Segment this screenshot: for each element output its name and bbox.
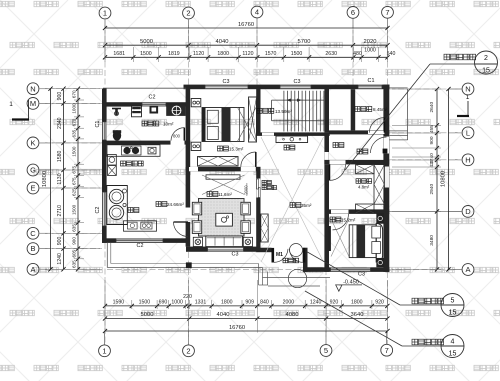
svg-text:2000: 2000 bbox=[243, 185, 248, 195]
svg-text:C3: C3 bbox=[232, 252, 239, 258]
svg-text:1000: 1000 bbox=[171, 299, 183, 305]
svg-text:6: 6 bbox=[351, 8, 355, 17]
svg-text:1580: 1580 bbox=[57, 151, 63, 163]
svg-text:1500: 1500 bbox=[140, 51, 152, 57]
svg-text:1681: 1681 bbox=[113, 51, 125, 57]
svg-text:1500: 1500 bbox=[72, 146, 77, 157]
svg-text:5000: 5000 bbox=[140, 39, 153, 45]
svg-text:675: 675 bbox=[72, 166, 77, 174]
svg-text:2: 2 bbox=[186, 9, 190, 18]
svg-text:8.45m²: 8.45m² bbox=[373, 107, 388, 112]
svg-text:1000: 1000 bbox=[364, 48, 376, 54]
svg-text:670: 670 bbox=[72, 118, 77, 126]
svg-text:220: 220 bbox=[183, 294, 192, 300]
modern stove counter bbox=[107, 145, 160, 157]
windows bbox=[205, 85, 248, 89]
porch column bbox=[186, 262, 192, 268]
elevation -0.450 bbox=[336, 285, 342, 291]
svg-text:900: 900 bbox=[72, 237, 77, 245]
svg-text:K: K bbox=[30, 139, 35, 148]
svg-text:C2: C2 bbox=[95, 207, 101, 214]
svg-text:1800: 1800 bbox=[217, 51, 229, 57]
right dimension lines bbox=[448, 89, 450, 270]
svg-text:24.66m²: 24.66m² bbox=[167, 202, 184, 207]
svg-text:C2: C2 bbox=[149, 95, 156, 101]
svg-text:2: 2 bbox=[484, 55, 488, 62]
svg-text:15.2m²: 15.2m² bbox=[341, 218, 356, 223]
svg-text:909: 909 bbox=[245, 299, 254, 305]
svg-text:635: 635 bbox=[72, 129, 77, 137]
svg-text:1590: 1590 bbox=[113, 299, 125, 305]
entry steps bbox=[263, 277, 331, 279]
svg-text:C2: C2 bbox=[137, 243, 144, 249]
sliding glass door bbox=[257, 179, 259, 189]
svg-text:670: 670 bbox=[72, 90, 77, 98]
svg-text:2340: 2340 bbox=[57, 117, 63, 129]
svg-text:15: 15 bbox=[482, 68, 490, 75]
svg-text:800: 800 bbox=[173, 134, 181, 139]
svg-text:16760: 16760 bbox=[238, 22, 254, 28]
svg-text:900: 900 bbox=[57, 92, 63, 101]
svg-text:C3: C3 bbox=[223, 79, 230, 85]
svg-text:N: N bbox=[30, 84, 35, 93]
svg-text:C3: C3 bbox=[358, 272, 365, 278]
svg-text:455: 455 bbox=[429, 125, 435, 133]
svg-text:A: A bbox=[30, 265, 35, 274]
svg-text:10m²: 10m² bbox=[163, 122, 174, 127]
svg-text:11.6m²: 11.6m² bbox=[218, 192, 232, 197]
svg-text:605: 605 bbox=[72, 249, 77, 257]
svg-text:A: A bbox=[465, 265, 470, 274]
svg-text:10800: 10800 bbox=[441, 171, 447, 187]
svg-text:635: 635 bbox=[72, 224, 77, 232]
shentai altar table bbox=[276, 136, 308, 143]
svg-text:2630: 2630 bbox=[325, 51, 337, 57]
svg-text:1570: 1570 bbox=[265, 51, 277, 57]
watermark text grid bbox=[0, 1, 14, 6]
svg-text:B: B bbox=[30, 244, 35, 253]
interior walls bbox=[102, 141, 171, 145]
svg-text:35m²: 35m² bbox=[301, 203, 312, 208]
svg-text:M: M bbox=[30, 99, 36, 108]
master TV board bbox=[328, 226, 331, 251]
kitchen lower counter bbox=[124, 221, 157, 231]
svg-text:N: N bbox=[465, 85, 470, 94]
svg-text:1: 1 bbox=[466, 94, 470, 101]
svg-text:900: 900 bbox=[57, 236, 63, 245]
grid bubbles top bbox=[99, 7, 111, 19]
svg-text:1130: 1130 bbox=[57, 173, 63, 184]
svg-text:2: 2 bbox=[186, 346, 190, 355]
svg-text:900: 900 bbox=[429, 136, 435, 144]
grid bubbles left bbox=[27, 83, 39, 95]
svg-text:2640: 2640 bbox=[429, 102, 435, 113]
svg-text:4: 4 bbox=[451, 339, 455, 346]
svg-text:1240: 1240 bbox=[310, 299, 322, 305]
leader note 2/15 bbox=[345, 64, 430, 170]
svg-text:1800: 1800 bbox=[221, 299, 233, 305]
svg-text:L: L bbox=[466, 128, 470, 137]
master nightstands bbox=[377, 214, 384, 224]
grid bubbles right bbox=[462, 83, 474, 95]
svg-text:3480: 3480 bbox=[429, 235, 435, 246]
svg-text:675: 675 bbox=[72, 177, 77, 185]
svg-text:G: G bbox=[30, 166, 36, 175]
svg-text:16760: 16760 bbox=[229, 325, 245, 331]
grid bubbles bottom bbox=[99, 345, 111, 357]
svg-text:10800: 10800 bbox=[42, 171, 48, 187]
svg-text:1120: 1120 bbox=[242, 51, 253, 57]
svg-text:7: 7 bbox=[385, 8, 389, 17]
svg-text:1120: 1120 bbox=[193, 51, 204, 57]
svg-text:920: 920 bbox=[330, 299, 339, 305]
svg-text:C1: C1 bbox=[368, 78, 375, 84]
svg-text:625: 625 bbox=[72, 188, 77, 196]
svg-text:2940: 2940 bbox=[429, 184, 435, 195]
svg-text:C3: C3 bbox=[294, 79, 301, 85]
door arcs bbox=[171, 128, 184, 141]
svg-text:920: 920 bbox=[375, 299, 384, 305]
south porch lines bbox=[106, 243, 108, 268]
svg-text:635: 635 bbox=[72, 260, 77, 268]
bedroom2 bed bbox=[202, 108, 244, 142]
svg-text:D: D bbox=[465, 207, 471, 216]
fridge and cabinet bbox=[108, 155, 117, 166]
svg-text:E: E bbox=[30, 184, 35, 193]
bedroom2 wardrobe bbox=[249, 97, 257, 142]
bedroom2 south closet bbox=[198, 157, 239, 167]
svg-text:5: 5 bbox=[451, 298, 455, 305]
svg-text:1500: 1500 bbox=[72, 204, 77, 215]
svg-text:690: 690 bbox=[159, 299, 168, 305]
staircase bbox=[272, 91, 324, 132]
leader note 5/15 bbox=[307, 252, 401, 306]
NE porch steps bbox=[407, 89, 409, 140]
svg-text:4080: 4080 bbox=[286, 312, 299, 318]
svg-text:4.8m²: 4.8m² bbox=[358, 185, 370, 190]
svg-text:1819: 1819 bbox=[168, 51, 180, 57]
svg-text:15: 15 bbox=[449, 351, 457, 358]
master bed bbox=[349, 225, 376, 258]
M1 entry double door bbox=[272, 248, 275, 263]
svg-text:1: 1 bbox=[103, 9, 107, 18]
svg-text:5: 5 bbox=[324, 346, 328, 355]
bedroom2 nightstands bbox=[191, 99, 201, 107]
bathroom fixtures bbox=[112, 108, 121, 110]
tuzao traditional stove bbox=[107, 186, 128, 225]
leader note 4/15 bbox=[305, 291, 402, 346]
svg-text:540: 540 bbox=[387, 51, 396, 57]
svg-text:15: 15 bbox=[449, 310, 457, 317]
svg-text:1: 1 bbox=[9, 101, 13, 108]
hall cross lines bbox=[261, 137, 324, 262]
svg-text:1000: 1000 bbox=[72, 103, 77, 114]
svg-text:840: 840 bbox=[260, 299, 269, 305]
wine cabinet bbox=[261, 214, 268, 242]
svg-text:4040: 4040 bbox=[217, 312, 230, 318]
top dimension lines bbox=[105, 27, 388, 29]
svg-text:2020: 2020 bbox=[364, 39, 377, 45]
svg-text:7: 7 bbox=[385, 346, 389, 355]
svg-text:425: 425 bbox=[429, 159, 435, 167]
gridline axes bbox=[104, 19, 106, 86]
svg-text:15.3m²: 15.3m² bbox=[229, 147, 244, 152]
coffee table bbox=[216, 213, 233, 226]
closet wardrobes bbox=[356, 165, 375, 174]
svg-text:2710: 2710 bbox=[57, 205, 63, 217]
svg-text:4: 4 bbox=[255, 8, 259, 17]
left dimension lines bbox=[50, 89, 52, 270]
svg-text:4040: 4040 bbox=[216, 39, 229, 45]
svg-text:C1: C1 bbox=[95, 121, 101, 128]
exterior walls bbox=[184, 85, 390, 90]
svg-text:1331: 1331 bbox=[195, 299, 207, 305]
svg-text:1500: 1500 bbox=[291, 51, 303, 57]
svg-text:13.59m²: 13.59m² bbox=[275, 109, 292, 114]
rug bbox=[199, 199, 245, 237]
svg-text:C: C bbox=[30, 229, 36, 238]
corner side tables bbox=[193, 237, 202, 246]
svg-text:H: H bbox=[465, 155, 470, 164]
TV cabinet bbox=[206, 175, 240, 179]
SW porch steps bbox=[258, 264, 260, 286]
svg-text:480: 480 bbox=[353, 51, 362, 57]
svg-text:M1: M1 bbox=[276, 252, 283, 258]
svg-text:1500: 1500 bbox=[139, 299, 151, 305]
bottom dimension lines bbox=[105, 305, 388, 307]
svg-text:2000: 2000 bbox=[283, 299, 295, 305]
svg-text:3640: 3640 bbox=[351, 312, 364, 318]
svg-text:1800: 1800 bbox=[351, 299, 363, 305]
svg-text:5000: 5000 bbox=[141, 312, 154, 318]
svg-text:1240: 1240 bbox=[57, 253, 63, 265]
sofas bbox=[192, 202, 201, 215]
svg-text:5700: 5700 bbox=[298, 39, 311, 45]
svg-text:1: 1 bbox=[102, 346, 106, 355]
room labels bbox=[142, 121, 159, 126]
